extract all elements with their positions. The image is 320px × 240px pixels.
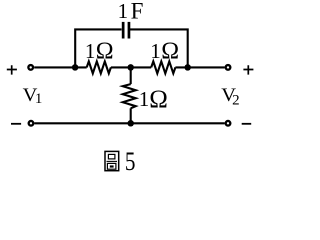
resistor R2 value label 1 Ω	[150, 39, 179, 65]
resistor R3 value label 1 Ω	[139, 86, 168, 113]
wire R3 to bottom node	[130, 108, 132, 123]
label V2	[221, 85, 239, 108]
minus sign right	[242, 123, 252, 125]
terminal V2 minus (open circle)	[226, 121, 231, 126]
svg-text:1: 1	[118, 0, 129, 23]
capacitor C1 value label 1 F	[118, 0, 144, 24]
svg-text:1: 1	[85, 39, 96, 63]
svg-text:1: 1	[35, 91, 43, 107]
wire top-right loop branch	[130, 29, 188, 67]
capacitor C1 plates	[122, 22, 131, 39]
wire top-left loop branch	[75, 29, 121, 67]
wire between R1 and middle node	[111, 66, 151, 68]
resistor R3 vertical zigzag	[123, 84, 136, 108]
plus sign right	[243, 65, 253, 74]
wire between R2 and right terminal	[175, 66, 224, 68]
terminal V1 plus (open circle)	[28, 65, 33, 70]
svg-text:5: 5	[125, 146, 136, 176]
node junction dot left (top rail)	[72, 64, 79, 71]
svg-text:1: 1	[150, 39, 161, 63]
svg-text:F: F	[131, 0, 144, 24]
node junction dot right (top rail)	[184, 64, 191, 71]
wire bottom rail	[35, 122, 225, 124]
svg-text:1: 1	[139, 87, 150, 111]
plus sign left	[7, 65, 17, 74]
label V1	[23, 85, 43, 107]
wire middle node down to R3	[130, 67, 132, 84]
svg-text:Ω: Ω	[149, 86, 168, 113]
wire main horizontal segment left	[34, 66, 86, 68]
resistor R2 zigzag	[151, 61, 175, 73]
terminal V2 plus (open circle)	[226, 65, 231, 70]
svg-text:Ω: Ω	[161, 39, 179, 65]
caption figure number 5	[125, 146, 136, 176]
terminal V1 minus (open circle)	[29, 121, 34, 126]
node junction dot bottom rail	[127, 120, 134, 127]
svg-text:2: 2	[232, 92, 240, 108]
caption ideogram 圖 (drawn)	[105, 151, 119, 170]
svg-text:Ω: Ω	[96, 39, 114, 65]
minus sign left	[11, 123, 21, 125]
resistor R1 value label 1 Ω	[85, 39, 114, 65]
node junction dot middle (top rail)	[127, 64, 134, 71]
resistor R1 zigzag	[87, 61, 111, 73]
